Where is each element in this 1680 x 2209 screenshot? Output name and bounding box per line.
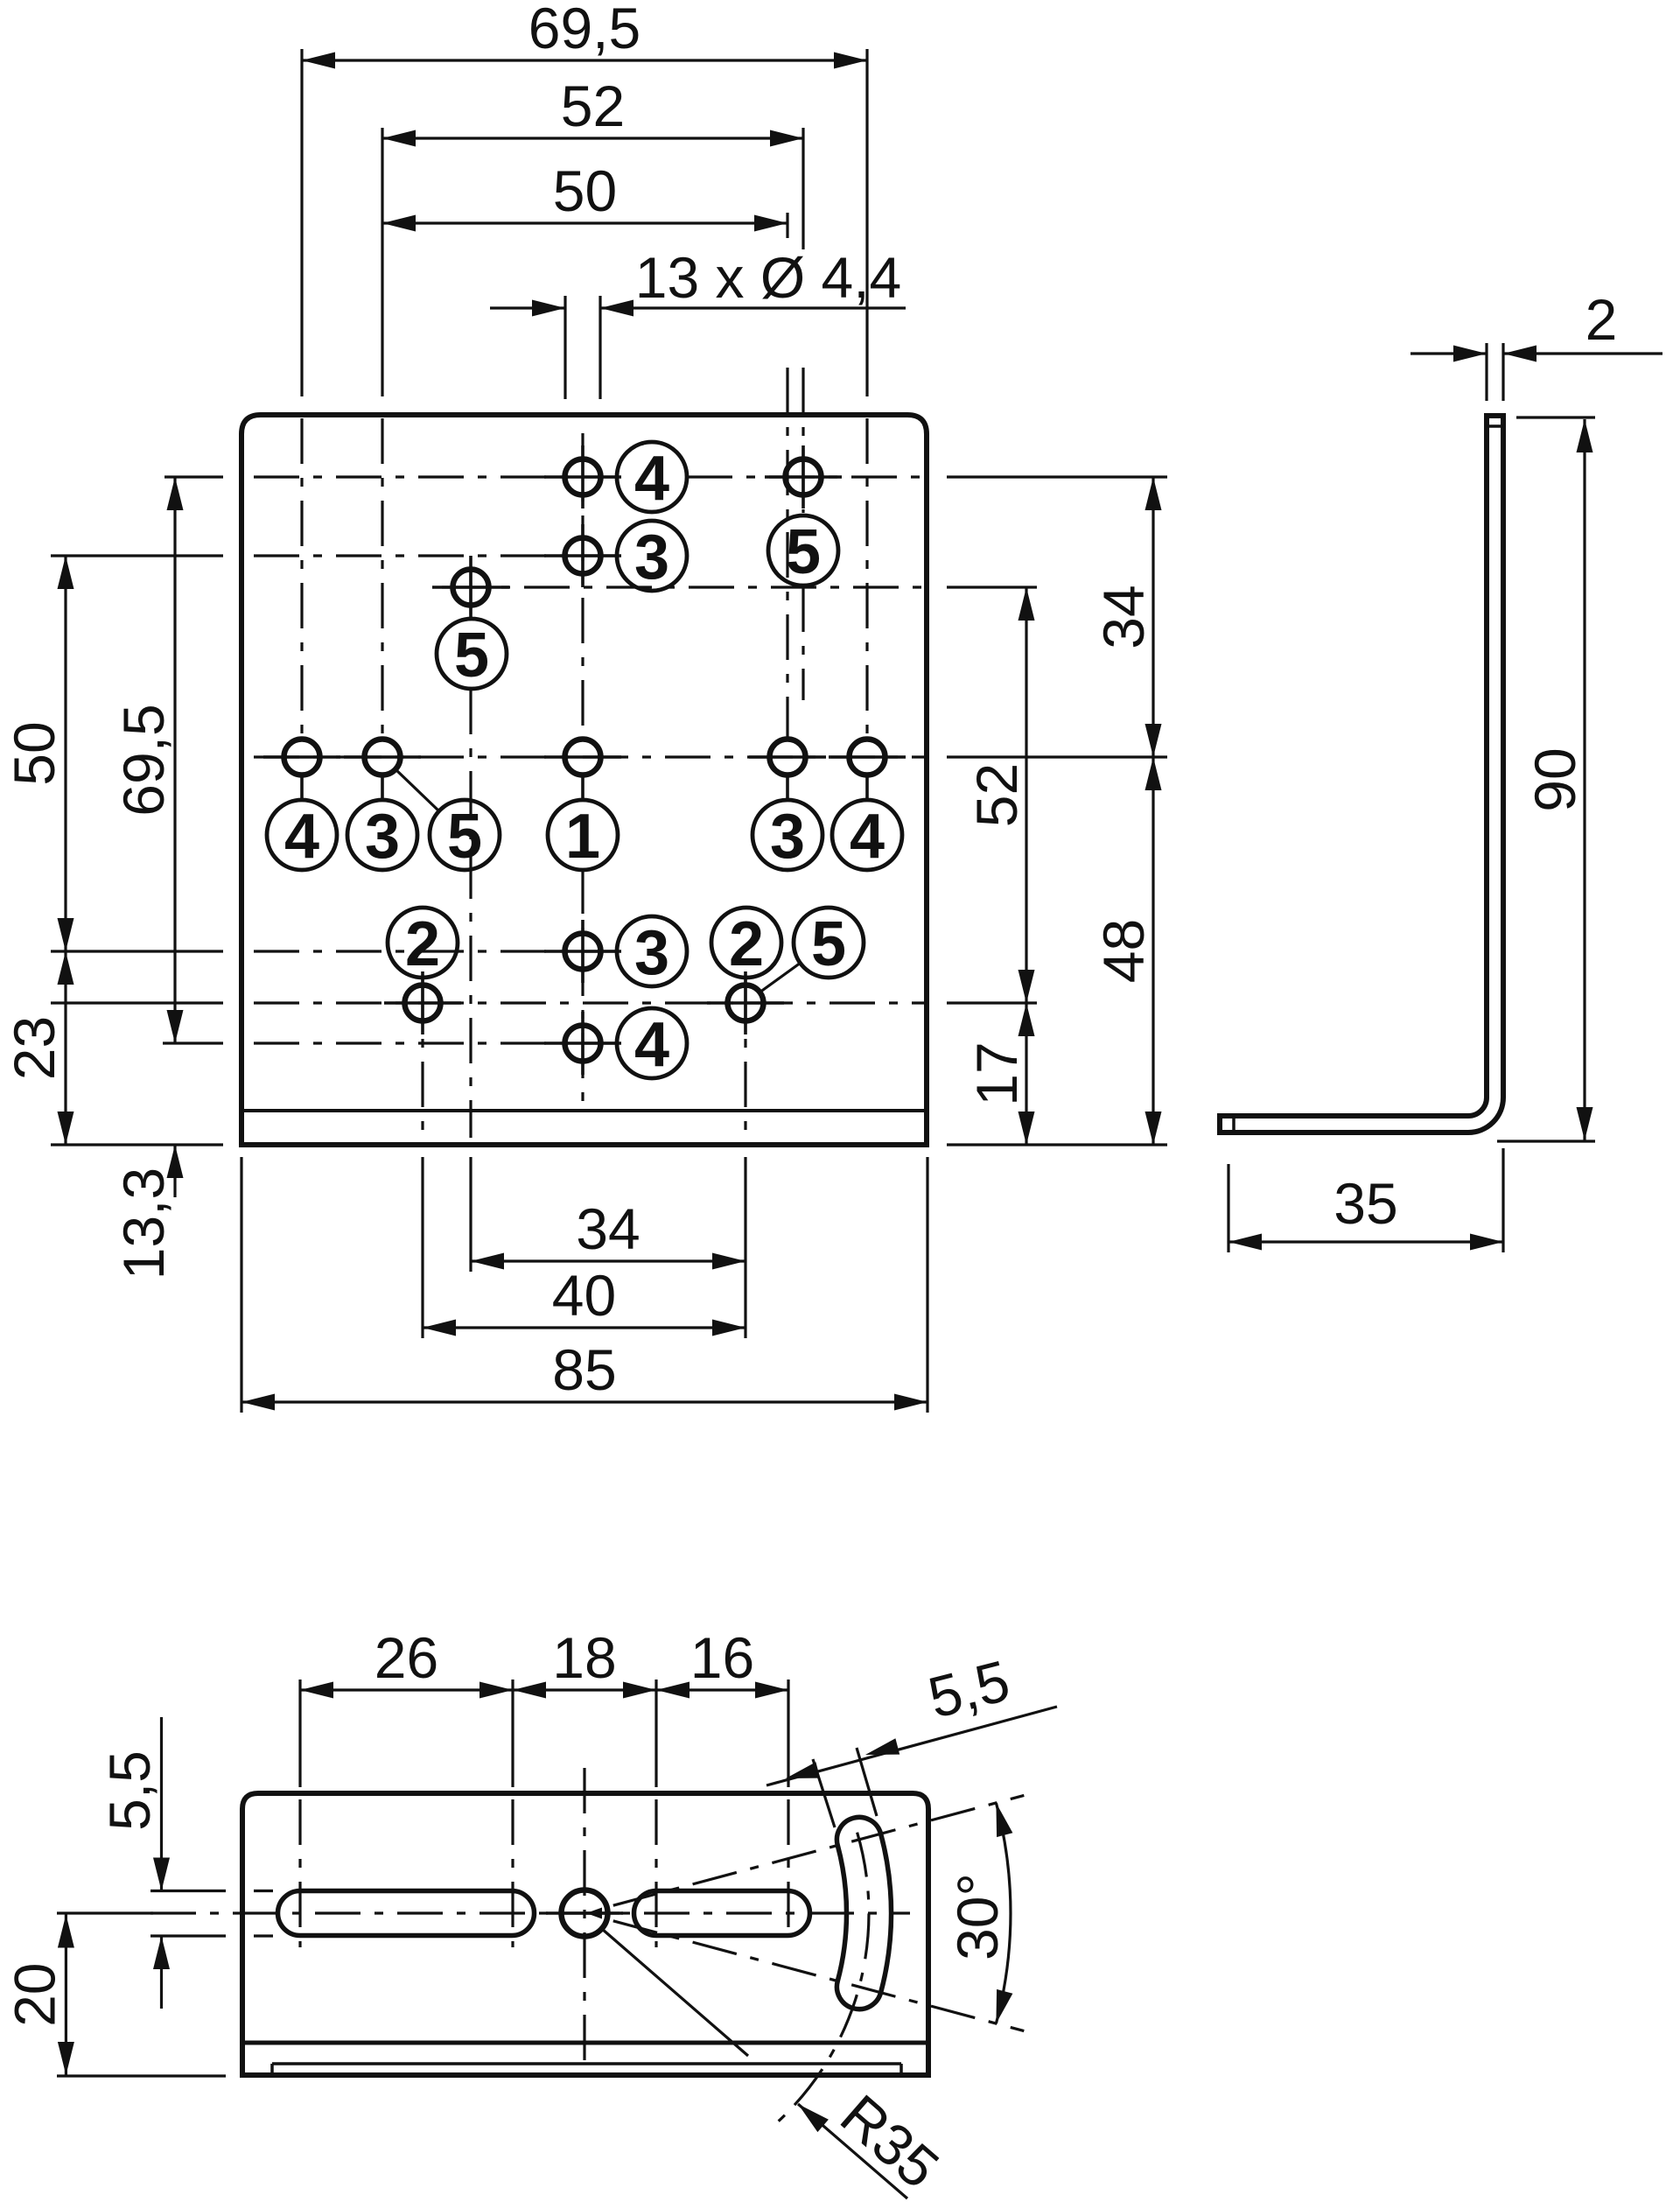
svg-text:13,3: 13,3 <box>111 1168 176 1280</box>
svg-text:3: 3 <box>365 802 400 872</box>
svg-text:52: 52 <box>964 763 1029 827</box>
svg-text:2: 2 <box>405 909 440 979</box>
svg-text:30°: 30° <box>945 1873 1010 1960</box>
svg-text:16: 16 <box>690 1625 754 1690</box>
svg-text:5: 5 <box>811 909 846 979</box>
svg-text:4: 4 <box>284 802 319 872</box>
svg-text:69,5: 69,5 <box>111 704 176 816</box>
svg-text:3: 3 <box>634 522 669 593</box>
svg-text:5: 5 <box>454 621 489 691</box>
svg-text:52: 52 <box>561 74 625 138</box>
svg-text:35: 35 <box>1333 1171 1397 1236</box>
svg-text:2: 2 <box>729 909 764 979</box>
svg-text:20: 20 <box>2 1962 66 2026</box>
svg-text:5: 5 <box>447 802 482 872</box>
svg-text:13 x Ø 4,4: 13 x Ø 4,4 <box>635 245 902 310</box>
svg-text:23: 23 <box>2 1016 66 1080</box>
svg-text:17: 17 <box>964 1041 1029 1105</box>
svg-text:50: 50 <box>2 721 66 785</box>
svg-text:34: 34 <box>576 1196 640 1261</box>
svg-text:48: 48 <box>1091 919 1156 983</box>
svg-text:34: 34 <box>1091 585 1156 649</box>
svg-text:18: 18 <box>552 1625 616 1690</box>
svg-text:3: 3 <box>634 918 669 988</box>
svg-text:1: 1 <box>565 802 600 872</box>
svg-text:90: 90 <box>1522 747 1587 811</box>
svg-text:4: 4 <box>634 444 669 514</box>
svg-text:85: 85 <box>552 1337 616 1402</box>
svg-text:40: 40 <box>552 1263 616 1328</box>
svg-text:26: 26 <box>374 1625 438 1690</box>
svg-text:5,5: 5,5 <box>97 1750 162 1831</box>
svg-text:4: 4 <box>850 802 885 872</box>
svg-text:69,5: 69,5 <box>528 0 640 60</box>
svg-text:3: 3 <box>770 802 805 872</box>
svg-text:50: 50 <box>553 158 617 223</box>
svg-text:4: 4 <box>634 1010 669 1080</box>
svg-text:2: 2 <box>1585 287 1618 352</box>
svg-text:5: 5 <box>786 517 821 587</box>
